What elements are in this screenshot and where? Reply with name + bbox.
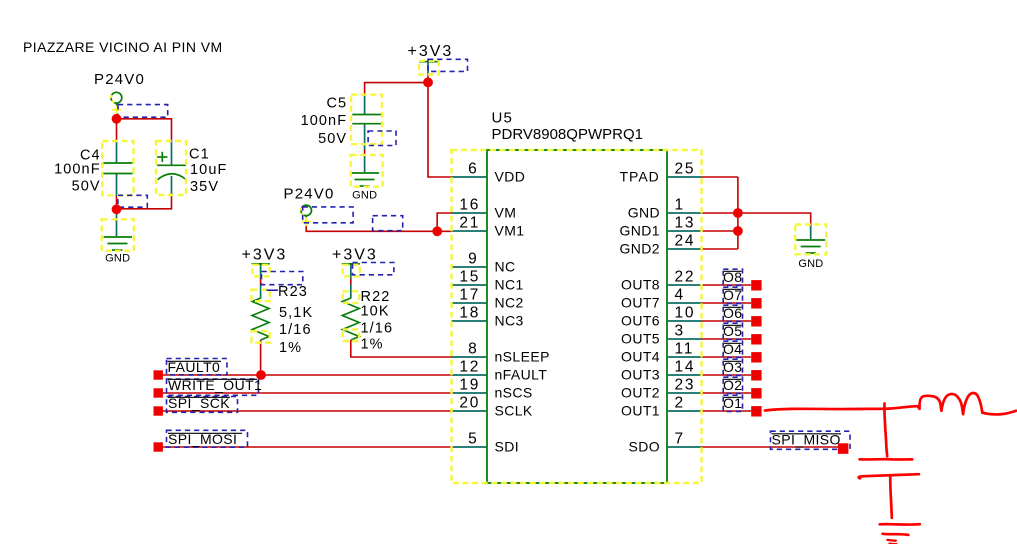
power symbol P24V0 circle 1 <box>111 92 122 103</box>
wire OUT2 to O2 <box>702 392 752 394</box>
svg-text:1/16: 1/16 <box>361 321 394 337</box>
svg-text:5,1K: 5,1K <box>279 305 313 321</box>
highlight +3V3 R23 <box>253 265 270 277</box>
pin 9 NC <box>452 266 488 268</box>
terminal O1 <box>751 406 761 416</box>
svg-text:C5: C5 <box>326 96 347 112</box>
pin 7 SDO <box>667 446 702 448</box>
svg-text:OUT2: OUT2 <box>621 385 660 401</box>
pin 1 GND <box>667 212 702 214</box>
select box C5 bottom <box>368 131 396 146</box>
highlight cross P24V0 1 <box>112 109 121 111</box>
svg-text:GND: GND <box>628 205 660 221</box>
junction R23/FAULT0 <box>256 370 266 380</box>
capacitor C1 bottom pin <box>171 176 173 197</box>
svg-text:18: 18 <box>459 305 480 322</box>
svg-text:1%: 1% <box>361 337 384 353</box>
select box WRITE_OUT1 <box>167 379 259 395</box>
pin 4 OUT7 <box>667 302 702 304</box>
sketch ground bar 3 <box>887 539 895 542</box>
svg-text:24: 24 <box>675 233 696 250</box>
svg-text:9: 9 <box>468 251 478 268</box>
pin 16 VM <box>452 212 488 214</box>
svg-text:4: 4 <box>675 287 685 304</box>
select box +3V3 R23 <box>262 272 303 285</box>
svg-text:SDI: SDI <box>495 439 520 455</box>
wire R23 stem upper <box>260 279 262 286</box>
svg-text:OUT3: OUT3 <box>621 367 660 383</box>
capacitor C4 plates <box>103 162 132 164</box>
svg-text:nFAULT: nFAULT <box>495 367 548 383</box>
wire SDO to SPI_MISO <box>702 446 839 448</box>
capacitor C1 top pin <box>171 141 173 165</box>
select box +3V3 top <box>428 59 468 71</box>
select box O2 <box>723 377 742 393</box>
select box O5 <box>723 323 742 339</box>
highlight gnd right <box>795 225 826 255</box>
select box +3V3 R22 <box>353 263 394 275</box>
highlight +3V3 top <box>419 61 439 75</box>
terminal O2 <box>751 388 761 398</box>
junction +3V3/C5/VDD <box>423 78 433 88</box>
select box O4 <box>723 341 742 357</box>
pin 6 VDD <box>452 176 488 178</box>
junction C4/C1 bottom <box>112 204 122 214</box>
svg-text:8: 8 <box>468 341 478 358</box>
svg-text:C1: C1 <box>189 147 210 163</box>
sketch capacitor bottom plate <box>859 474 919 478</box>
junction P24V0/C4/C1 top <box>112 114 122 124</box>
svg-text:NC1: NC1 <box>495 277 524 293</box>
gnd left stem <box>116 212 118 237</box>
wire junction to right GND symbol <box>738 213 811 227</box>
capacitor C5 bottom pin <box>364 124 366 150</box>
svg-text:+3V3: +3V3 <box>332 247 378 264</box>
select box SPI_MOSI <box>167 430 248 447</box>
capacitor C5 top pin <box>364 95 366 115</box>
svg-text:10K: 10K <box>361 304 390 320</box>
wire OUT1 to O1 <box>702 410 752 412</box>
svg-text:P24V0: P24V0 <box>94 71 145 88</box>
pin 2 OUT1 <box>667 410 702 412</box>
resistor R23 top stem <box>260 264 262 279</box>
wire P24V0 second to VM1 <box>306 221 451 231</box>
svg-text:2: 2 <box>675 395 685 412</box>
svg-text:VDD: VDD <box>495 169 526 185</box>
svg-text:3: 3 <box>675 323 685 340</box>
select box P24V0 net 2 <box>303 207 353 223</box>
capacitor C1 curved plate <box>158 174 186 180</box>
svg-text:VM1: VM1 <box>495 223 525 239</box>
svg-text:23: 23 <box>675 377 696 394</box>
pin 15 NC1 <box>452 284 488 286</box>
svg-text:GND: GND <box>105 253 130 265</box>
gnd mid stem <box>364 155 366 173</box>
sketch ground bar 1 <box>880 523 920 526</box>
resistor R23 zigzag <box>252 298 269 340</box>
svg-text:SCLK: SCLK <box>495 403 533 419</box>
wire P24V0 to C4 top junction horizontal <box>117 119 172 141</box>
pin 3 OUT5 <box>667 338 702 340</box>
svg-text:100nF: 100nF <box>301 113 348 129</box>
select box O1 <box>723 395 742 411</box>
svg-text:NC: NC <box>495 259 516 275</box>
select box O3 <box>723 359 742 375</box>
IC U5 body <box>487 150 667 483</box>
pin 5 SDI <box>452 446 488 448</box>
svg-text:OUT1: OUT1 <box>621 403 660 419</box>
svg-text:+3V3: +3V3 <box>242 247 288 264</box>
svg-text:5: 5 <box>468 431 478 448</box>
power P24V0 stem 2 <box>305 216 307 222</box>
svg-text:GND: GND <box>352 190 377 202</box>
sketch wire after inductor <box>982 411 1016 415</box>
junction GND rail 1 <box>733 208 743 218</box>
select box FAULT0 <box>167 359 228 375</box>
highlight IC <box>452 150 702 483</box>
wire gnd vertical rail <box>737 177 739 249</box>
wire R22 bottom to nSLEEP <box>351 340 452 357</box>
resistor R23 lower stem <box>260 285 262 299</box>
terminal O6 <box>751 316 761 326</box>
wire OUT4 to O4 <box>702 356 752 358</box>
svg-text:100nF: 100nF <box>54 162 101 178</box>
highlight C4 <box>102 141 133 195</box>
pin 18 NC3 <box>452 320 488 322</box>
terminal FAULT0 <box>154 370 163 379</box>
junction VM/VM1 <box>432 226 442 236</box>
pin 12 nFAULT <box>452 374 488 376</box>
svg-text:P24V0: P24V0 <box>284 186 335 203</box>
pin 24 GND2 <box>667 248 702 250</box>
wire OUT6 to O6 <box>702 320 752 322</box>
pin 13 GND1 <box>667 230 702 232</box>
terminal O8 <box>751 280 761 290</box>
terminal SPI_SCK <box>154 406 163 415</box>
junction GND rail 2 <box>733 226 743 236</box>
wire +3V3 stem <box>427 75 429 83</box>
wire OUT3 to O3 <box>702 374 752 376</box>
wire OUT8 to O8 <box>702 284 752 286</box>
highlight cross P24V0 2 <box>302 221 311 223</box>
svg-text:7: 7 <box>675 431 685 448</box>
wire OUT5 to O5 <box>702 338 752 340</box>
svg-text:OUT4: OUT4 <box>621 349 660 365</box>
capacitor C1 top plate <box>157 164 186 166</box>
svg-text:14: 14 <box>675 359 696 376</box>
power P24V0 stem 1 <box>116 104 118 113</box>
sketch wire capacitor to ground <box>890 477 892 518</box>
svg-text:20: 20 <box>459 395 480 412</box>
highlight R23 pin top <box>252 290 270 302</box>
pin 22 OUT8 <box>667 284 702 286</box>
svg-text:15: 15 <box>459 269 480 286</box>
svg-text:GND1: GND1 <box>620 223 661 239</box>
capacitor C4 bottom pin <box>116 174 118 197</box>
select box O6 <box>723 305 742 321</box>
svg-text:NC3: NC3 <box>495 313 524 329</box>
svg-text:21: 21 <box>459 215 480 232</box>
terminal O3 <box>751 370 761 380</box>
ground mid bars <box>350 172 379 174</box>
select box O7 <box>723 287 742 303</box>
pin 10 OUT6 <box>667 320 702 322</box>
wire TPAD pin 25 to gnd rail <box>702 176 738 178</box>
pin 21 VM1 <box>452 230 488 232</box>
wire C5 bottom to GND <box>364 149 366 156</box>
power +3V3 R23 bar <box>252 263 270 265</box>
svg-text:19: 19 <box>459 377 480 394</box>
terminal O5 <box>751 334 761 344</box>
capacitor C4 top pin <box>116 141 118 163</box>
wire GND pin 1 <box>702 212 738 214</box>
highlight +3V3 R22 <box>343 265 360 277</box>
wire C4 bottom to junction <box>116 196 118 214</box>
ground right bars <box>796 239 825 241</box>
terminal WRITE_OUT1 <box>154 388 163 397</box>
svg-text:GND2: GND2 <box>620 241 661 257</box>
resistor R22 top stem <box>350 264 352 279</box>
highlight gnd mid <box>351 155 383 187</box>
wire OUT7 to O7 <box>702 302 752 304</box>
pin 20 SCLK <box>452 410 488 412</box>
highlight R23 pin bottom <box>252 331 270 343</box>
svg-text:VM: VM <box>495 205 517 221</box>
wire WRITE_OUT1 to nSCS pin 19 <box>158 392 452 394</box>
highlight arc on circle 1 <box>111 93 114 102</box>
svg-text:OUT7: OUT7 <box>621 295 660 311</box>
svg-text:1/16: 1/16 <box>279 322 312 338</box>
select box O8 <box>723 269 742 285</box>
resistor R22 zigzag <box>342 298 359 340</box>
wire FAULT0 to nFAULT pin 12 <box>158 374 452 376</box>
highlight R22 pin bottom <box>343 329 360 341</box>
svg-text:11: 11 <box>675 341 695 358</box>
power +3V3 top bar <box>419 61 439 63</box>
power +3V3 top stem <box>427 62 429 75</box>
sketch capacitor top plate <box>860 458 913 461</box>
svg-text:R23: R23 <box>278 284 308 300</box>
highlight arc on circle 2 <box>301 206 304 215</box>
svg-text:1%: 1% <box>279 340 302 356</box>
svg-text:22: 22 <box>675 269 696 286</box>
sketch inductor L <box>919 393 982 414</box>
svg-text:+3V3: +3V3 <box>408 43 454 60</box>
svg-text:NC2: NC2 <box>495 295 524 311</box>
svg-text:GND: GND <box>798 258 823 270</box>
highlight C1 <box>156 141 186 195</box>
terminal SPI_MISO <box>838 443 849 454</box>
capacitor C5 plates <box>352 114 381 116</box>
wire +3V3 to C5 and VDD <box>365 83 428 95</box>
svg-text:13: 13 <box>675 215 696 232</box>
black tick R23 pin <box>267 289 279 291</box>
wire C1 bottom to bottom junction <box>117 196 172 209</box>
wire junction down to C4 <box>116 110 118 141</box>
wire GND2 pin 24 <box>702 248 738 250</box>
svg-text:OUT6: OUT6 <box>621 313 660 329</box>
pin 25 TPAD <box>667 176 702 178</box>
svg-text:50V: 50V <box>318 131 347 147</box>
select box SPI_SCK <box>167 397 238 413</box>
pin 11 OUT4 <box>667 356 702 358</box>
select box VM1 wire <box>373 216 403 231</box>
svg-text:PIAZZARE VICINO AI PIN VM: PIAZZARE VICINO AI PIN VM <box>23 39 223 55</box>
sketch wire from O1 to inductor <box>765 406 920 410</box>
power symbol P24V0 circle 2 <box>301 205 312 216</box>
ground left bars <box>104 236 132 238</box>
highlight C5 <box>351 95 382 145</box>
svg-text:17: 17 <box>459 287 480 304</box>
svg-text:TPAD: TPAD <box>619 169 659 185</box>
wire VM1 junction up to VM pin 16 <box>437 213 451 231</box>
wire SPI_MOSI to SDI pin 5 <box>158 446 452 448</box>
capacitor C1 plus sign <box>157 156 167 158</box>
wire SPI_SCK to SCLK pin 20 <box>158 410 452 412</box>
select box SPI_MISO <box>771 431 851 449</box>
terminal SPI_MOSI <box>154 442 163 451</box>
svg-text:16: 16 <box>459 197 480 214</box>
svg-text:SDO: SDO <box>628 439 660 455</box>
svg-text:OUT5: OUT5 <box>621 331 660 347</box>
terminal O7 <box>751 298 761 308</box>
resistor R22 lower stem <box>350 285 352 299</box>
svg-text:OUT8: OUT8 <box>621 277 660 293</box>
svg-text:10uF: 10uF <box>190 162 227 178</box>
svg-text:12: 12 <box>459 359 480 376</box>
svg-text:nSCS: nSCS <box>495 385 533 401</box>
sketch vertical wire to capacitor <box>884 404 887 457</box>
svg-text:25: 25 <box>675 161 696 178</box>
svg-text:U5: U5 <box>492 110 514 127</box>
wire R22 stem upper <box>350 279 352 286</box>
svg-text:10: 10 <box>675 305 696 322</box>
pin 19 nSCS <box>452 392 488 394</box>
gnd right stem <box>810 226 812 240</box>
highlight R22 pin top <box>343 291 360 303</box>
pin 14 OUT3 <box>667 374 702 376</box>
pin 8 nSLEEP <box>452 356 488 358</box>
wire GND1 pin 13 <box>702 230 738 232</box>
power +3V3 R22 bar <box>342 263 360 265</box>
svg-text:6: 6 <box>468 161 478 178</box>
select box C4 bottom junction <box>118 195 147 207</box>
svg-text:35V: 35V <box>190 179 219 195</box>
highlight gnd left <box>102 219 134 251</box>
pin 17 NC2 <box>452 302 488 304</box>
svg-text:50V: 50V <box>72 179 101 195</box>
terminal O4 <box>751 352 761 362</box>
svg-text:nSLEEP: nSLEEP <box>495 349 550 365</box>
svg-text:1: 1 <box>675 197 685 214</box>
select box P24V0 net 1 <box>118 105 168 118</box>
svg-text:PDRV8908QPWPRQ1: PDRV8908QPWPRQ1 <box>492 126 643 143</box>
pin 23 OUT2 <box>667 392 702 394</box>
wire R23 bottom to FAULT0 net <box>260 340 262 375</box>
wire +3V3 junction down to VDD pin 6 <box>428 83 452 177</box>
sketch ground bar 2 <box>883 534 909 535</box>
